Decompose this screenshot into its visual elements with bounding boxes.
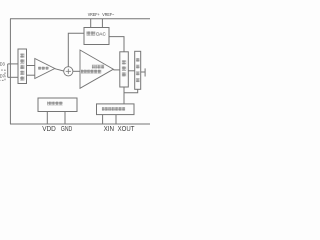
node D3 stub wire: [8, 63, 18, 65]
chip boundary top border: [10, 18, 150, 20]
label clock 时钟产生电路: [102, 107, 125, 111]
bus line D3-D7: [7, 64, 9, 77]
label buffer 缓冲器: [38, 67, 49, 70]
svg-text:DAC: DAC: [96, 32, 106, 37]
buffer amp triangle: [35, 59, 55, 79]
selector block: [18, 49, 27, 84]
svg-text:D7: D7: [0, 73, 5, 78]
label filter 滤波器 vertical: [122, 60, 126, 76]
node D7 stub wire: [8, 76, 18, 78]
svg-text:XOUT: XOUT: [118, 126, 135, 133]
dashed box around D7: [0, 70, 5, 80]
output driver block: [135, 51, 141, 89]
chip boundary bottom border: [10, 123, 150, 125]
svg-text:D3: D3: [0, 61, 5, 66]
output stub wire: [141, 71, 145, 73]
output pin tick: [144, 68, 146, 76]
chip boundary left border: [9, 19, 11, 124]
filter block: [120, 52, 129, 87]
pin XOUT wire: [115, 115, 117, 124]
wire driver bottom to junction: [124, 89, 138, 93]
pin GND wire: [64, 112, 66, 125]
PGA triangle: [80, 50, 113, 88]
wire summer to bias DAC: [68, 33, 84, 67]
wire selector to buffer lower: [27, 74, 35, 76]
label PGA 增益放大器 line2: [81, 70, 101, 74]
wire buffer to summer: [55, 69, 64, 71]
label PGA 可编程 line1: [92, 65, 104, 69]
wire filter bottom to clock: [123, 87, 125, 104]
label bias DAC 偏置DAC: [87, 31, 107, 36]
bias circuit block: [38, 98, 77, 112]
pin XIN wire: [102, 115, 104, 124]
wire summer to PGA: [73, 70, 80, 72]
pin VREF+ stub: [90, 19, 92, 28]
wire bias DAC to filter: [109, 37, 124, 52]
bias DAC block: [84, 28, 109, 45]
label selector 音源选择器 vertical: [20, 54, 24, 81]
wire selector to buffer upper: [27, 65, 35, 67]
wire PGA to filter: [113, 69, 119, 71]
pin VDD wire: [46, 112, 48, 125]
svg-text:VREF−: VREF−: [102, 12, 114, 18]
svg-text:XIN: XIN: [104, 126, 114, 133]
svg-text:VREF+: VREF+: [88, 12, 100, 18]
summer circle: [64, 67, 73, 76]
svg-text:GND: GND: [61, 126, 72, 133]
pin VREF- stub: [101, 19, 103, 28]
summer plus sign: [66, 70, 71, 72]
svg-text:VDD: VDD: [42, 126, 56, 133]
label bias circuit 偏置电路: [47, 102, 62, 106]
wire filter to driver: [128, 70, 134, 72]
label output driver 输出驱动 vertical: [136, 58, 140, 82]
clock generator block: [97, 104, 135, 115]
